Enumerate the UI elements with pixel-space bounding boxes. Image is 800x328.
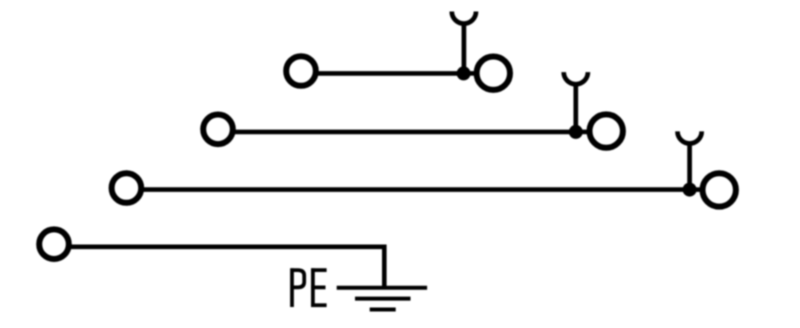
- test-plug fork level 3: [678, 131, 702, 143]
- wire level 2: [232, 130, 576, 135]
- terminal circle level 2 right: [590, 114, 623, 147]
- wire stub junction to right terminal level 3: [690, 187, 704, 192]
- test-plug fork level 2: [564, 72, 588, 84]
- wire stub junction to right terminal level 1: [464, 71, 478, 76]
- junction dot level 1: [457, 66, 471, 80]
- terminal circle level 3 left: [112, 173, 142, 203]
- wire level 1: [315, 71, 464, 76]
- test-plug fork level 1: [452, 12, 476, 24]
- terminal circle level 1 right: [477, 56, 510, 89]
- fork stem wire level 3: [687, 144, 692, 190]
- terminal circle level 1 left: [286, 56, 316, 86]
- wire PE level: [69, 247, 385, 288]
- fork stem wire level 2: [573, 84, 578, 132]
- label PE: [291, 268, 327, 307]
- terminal circle PE level left: [39, 229, 69, 259]
- wire stub junction to right terminal level 2: [576, 130, 591, 135]
- terminal circle level 3 right: [703, 173, 736, 206]
- fork stem wire level 1: [462, 24, 467, 74]
- terminal circle level 2 left: [203, 115, 233, 145]
- earth ground bar 3: [370, 308, 396, 312]
- wire level 3: [141, 187, 690, 192]
- junction dot level 2: [569, 125, 583, 139]
- junction dot level 3: [683, 183, 697, 197]
- earth ground bar 2: [355, 297, 411, 301]
- earth ground bar 1: [337, 286, 427, 290]
